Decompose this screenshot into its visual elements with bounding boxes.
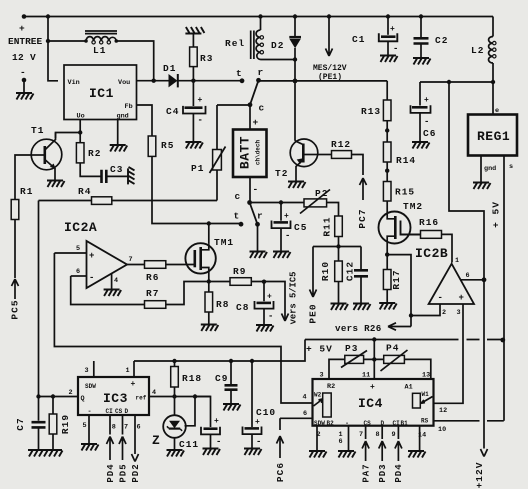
svg-text:R13: R13 [361, 106, 381, 117]
svg-text:4: 4 [152, 389, 156, 397]
arrow PC5 [12, 279, 19, 299]
svg-text:C12: C12 [345, 261, 356, 281]
svg-text:W2: W2 [314, 392, 322, 399]
svg-text:6: 6 [137, 424, 141, 432]
svg-text:C4: C4 [166, 106, 179, 117]
svg-text:+: + [370, 383, 375, 392]
svg-text:B1: B1 [401, 420, 409, 427]
resistor R4 [39, 200, 92, 202]
potentiometer P2 [304, 199, 327, 207]
svg-text:2: 2 [317, 431, 321, 439]
resistor R13 [386, 81, 388, 100]
svg-text:CI: CI [106, 408, 114, 415]
svg-text:PC7: PC7 [357, 208, 368, 228]
svg-text:11: 11 [362, 372, 370, 380]
svg-text:12: 12 [439, 407, 447, 415]
svg-text:C5: C5 [294, 222, 307, 233]
ground zener [167, 450, 185, 457]
svg-text:PC6: PC6 [275, 462, 286, 482]
svg-text:C6: C6 [423, 128, 436, 139]
wire IC2A feedback [71, 276, 145, 305]
capacitor C7 [38, 397, 40, 421]
wire +5V line [305, 339, 503, 341]
svg-text:+: + [459, 293, 464, 303]
wire IC3 pin1 stub [133, 361, 135, 377]
svg-text:BATT: BATT [237, 136, 252, 169]
svg-text:-: - [88, 408, 92, 416]
svg-text:R8: R8 [216, 299, 229, 310]
node TM2 source junction [385, 252, 389, 256]
potentiometer W2 internal [323, 393, 332, 417]
svg-text:t: t [236, 68, 243, 79]
wire junction line to C12 [313, 246, 361, 248]
svg-text:-: - [285, 231, 290, 241]
capacitor C8 [263, 282, 265, 302]
svg-text:9: 9 [392, 431, 396, 439]
wire IC3 supply bus [134, 340, 305, 362]
wire IC2A minus input [71, 275, 87, 277]
resistor R9 [209, 281, 230, 283]
svg-text:D1: D1 [163, 63, 176, 74]
svg-text:R6: R6 [146, 272, 159, 283]
resistor R7 [145, 301, 166, 309]
node c contact top [248, 102, 253, 107]
resistor R8 [205, 292, 213, 312]
capacitor C10 [250, 359, 254, 363]
ground C9 [223, 404, 241, 411]
inductor L2 [492, 17, 494, 37]
svg-text:D2: D2 [271, 40, 284, 51]
transistor T1 [31, 139, 62, 170]
capacitor C6 [419, 82, 421, 106]
node c contact bottom [247, 200, 252, 205]
svg-text:vers 5/IC5: vers 5/IC5 [288, 272, 298, 325]
ground r bottom [250, 252, 268, 259]
IC1 box [64, 65, 137, 120]
transistor T2 [290, 139, 318, 167]
svg-text:PD2: PD2 [131, 463, 141, 482]
wire Vout line [137, 80, 169, 82]
wire r line to R13 [259, 80, 388, 82]
svg-text:+: + [424, 96, 429, 105]
wire r bottom to ground [257, 224, 259, 251]
svg-text:-: - [253, 184, 260, 195]
svg-text:+: + [19, 23, 26, 34]
ground REG1 [473, 183, 491, 190]
svg-text:10: 10 [438, 426, 446, 434]
wire pin11 riser [373, 340, 375, 380]
svg-text:TM2: TM2 [403, 201, 423, 212]
capacitor C11 [195, 397, 211, 428]
resistor R1 [11, 200, 19, 220]
svg-text:14: 14 [418, 432, 426, 440]
svg-text:gnd: gnd [117, 113, 129, 121]
svg-text:6: 6 [76, 268, 80, 276]
ground R10 [331, 304, 349, 311]
svg-text:-: - [89, 273, 94, 283]
svg-text:T1: T1 [31, 125, 44, 136]
svg-text:L1: L1 [93, 45, 106, 56]
ground C6 [412, 142, 430, 149]
wire IC3 ref line [149, 396, 211, 398]
ground C5 [273, 252, 291, 259]
svg-text:C1: C1 [352, 34, 365, 45]
svg-text:R2: R2 [88, 148, 101, 159]
svg-text:Q: Q [81, 395, 85, 403]
svg-text:c: c [259, 103, 266, 114]
svg-text:SDW: SDW [314, 420, 325, 427]
svg-text:e: e [495, 107, 499, 115]
svg-text:PE0: PE0 [308, 303, 319, 323]
ground C8 [256, 325, 274, 332]
wire coil bottom to D2 line [261, 59, 296, 61]
potentiometer P1 [217, 105, 250, 201]
svg-text:7: 7 [359, 431, 363, 439]
arrow PD3 pin8 [379, 426, 386, 461]
svg-text:C8: C8 [236, 302, 249, 313]
svg-text:A1: A1 [405, 384, 413, 392]
svg-text:L2: L2 [471, 45, 484, 56]
node t contact bottom [239, 222, 244, 227]
ground C4 [185, 142, 203, 149]
wire IC3 pin5 ground [88, 415, 90, 444]
svg-text:R11: R11 [322, 216, 333, 236]
svg-text:RS: RS [421, 418, 429, 425]
svg-text:REG1: REG1 [477, 129, 510, 144]
arrow PC6 [277, 418, 284, 458]
svg-text:ch\dech: ch\dech [255, 140, 262, 166]
resistor R5 [148, 136, 156, 156]
svg-text:-: - [268, 312, 273, 322]
svg-text:-: - [424, 117, 429, 127]
chassis C3 [128, 167, 135, 185]
svg-text:-: - [20, 67, 27, 78]
svg-text:+: + [214, 417, 219, 426]
svg-text:6: 6 [303, 410, 307, 418]
svg-text:Rel: Rel [225, 38, 245, 49]
wire R5 down to t line [152, 156, 241, 223]
resistor R14 [383, 142, 391, 162]
svg-text:+: + [390, 25, 395, 34]
svg-text:7: 7 [124, 424, 128, 432]
svg-text:3: 3 [85, 367, 89, 375]
node TM1 drain tap [207, 221, 211, 225]
svg-text:(PE1): (PE1) [318, 73, 342, 82]
wire IC3 pin3 stub [93, 361, 95, 377]
svg-text:C7: C7 [15, 417, 26, 430]
inductor L1 [48, 40, 86, 42]
resistor R12 [318, 154, 332, 156]
svg-text:C9: C9 [215, 373, 228, 384]
svg-text:P2: P2 [315, 188, 328, 199]
svg-text:R2: R2 [327, 383, 335, 391]
svg-text:IC1: IC1 [89, 86, 114, 101]
svg-text:R9: R9 [233, 266, 246, 277]
svg-text:+: + [255, 418, 260, 427]
ground C7 R19 wide [28, 450, 63, 457]
battery BATT [249, 105, 251, 130]
IC3 box [78, 377, 149, 415]
svg-text:vers R26: vers R26 [335, 323, 382, 334]
svg-text:C11: C11 [179, 439, 199, 450]
svg-text:R4: R4 [78, 186, 91, 197]
resistor R6 [145, 261, 166, 269]
capacitor C3 [80, 163, 101, 177]
wire 12V filtered line [420, 81, 493, 83]
arrow PD5 pin7 [119, 415, 126, 460]
svg-text:R1: R1 [20, 186, 33, 197]
svg-text:7: 7 [129, 256, 133, 264]
wire bus drop to Vin [46, 14, 50, 18]
svg-text:R7: R7 [146, 288, 159, 299]
ground C10 [244, 449, 262, 456]
svg-text:IC3: IC3 [103, 391, 128, 406]
svg-text:IC2A: IC2A [64, 220, 97, 235]
svg-text:IC4: IC4 [358, 396, 383, 411]
svg-text:+ 5V: + 5V [491, 201, 502, 228]
node r contact bottom [255, 222, 260, 227]
ground R17 [379, 303, 397, 310]
svg-text:12 V: 12 V [12, 52, 36, 63]
svg-text:2: 2 [442, 309, 446, 317]
wire R16 to IC2B pin1 [442, 234, 453, 262]
wire R11 to junction [338, 237, 340, 247]
diode D1 [169, 74, 178, 87]
resistor R11 [335, 216, 343, 237]
svg-text:P4: P4 [386, 343, 399, 354]
node + input terminal [22, 14, 27, 19]
svg-text:C2: C2 [435, 35, 448, 46]
svg-text:c: c [235, 191, 242, 202]
wire R4 node down to IC3 pin2 [38, 201, 40, 397]
node r contact top [256, 78, 261, 83]
wire P3 to pin11 riser [364, 358, 384, 360]
svg-text:B2: B2 [327, 420, 335, 427]
svg-text:r: r [257, 211, 264, 222]
svg-text:R12: R12 [331, 139, 351, 150]
wire IC4 pin10 5V [434, 420, 504, 422]
svg-text:3: 3 [320, 372, 324, 380]
wire line A : IC2A+ to IC4 pin4 [54, 253, 312, 403]
resistor R3 [192, 34, 194, 81]
node IC2B out to 12V [482, 277, 487, 282]
wire REG1 s output 5V rail [503, 156, 505, 421]
arrow PD4 pin9 [395, 426, 402, 461]
wire TM2 source to IC2B pin2 and vers R26 [387, 255, 440, 327]
capacitor C4 [192, 81, 194, 106]
arrow +12V [481, 449, 488, 457]
svg-text:PA7: PA7 [361, 463, 371, 482]
resistor R10 [338, 247, 340, 262]
svg-text:+12V: +12V [474, 462, 485, 489]
potentiometer P3 [345, 355, 364, 363]
svg-text:-: - [256, 437, 261, 447]
svg-text:Fb: Fb [125, 103, 133, 111]
wire T1 base to R1 [15, 155, 31, 200]
svg-text:+ 5V: + 5V [306, 344, 333, 355]
svg-text:Vin: Vin [68, 79, 80, 87]
svg-text:t: t [234, 211, 241, 222]
svg-text:6: 6 [466, 272, 470, 280]
svg-text:+: + [284, 212, 289, 221]
node r-line crossing D2 line [293, 79, 298, 84]
svg-text:s: s [509, 163, 513, 171]
arrow PA7 pin7 [362, 426, 369, 461]
diode D2 [293, 14, 297, 18]
wire R1 to PC5 [14, 220, 16, 279]
svg-text:2: 2 [69, 389, 73, 397]
svg-text:CS: CS [364, 420, 372, 427]
wire IC1 gnd pin [117, 120, 119, 145]
svg-text:R5: R5 [161, 140, 174, 151]
ground IC1 [110, 145, 128, 152]
arrow PD2 pin6 [132, 415, 139, 462]
chassis above R3 [185, 27, 204, 34]
arrow PC7 [360, 178, 367, 200]
svg-text:T2: T2 [275, 168, 288, 179]
ground C12 [353, 304, 371, 311]
wire IC2B pin3 to IC4 wiper [434, 304, 464, 403]
capacitor C1 [386, 14, 390, 18]
wire top 12V bus [24, 16, 493, 18]
svg-text:C10: C10 [256, 407, 276, 418]
svg-text:R15: R15 [395, 187, 415, 198]
svg-text:TM1: TM1 [214, 237, 234, 248]
node L1 tap [46, 39, 50, 43]
potentiometer W1 internal [413, 393, 421, 408]
wire IC2A plus input [54, 252, 86, 254]
svg-text:PD5: PD5 [118, 463, 128, 482]
wire minus stub [23, 80, 25, 92]
svg-text:1: 1 [455, 257, 459, 265]
svg-text:-: - [216, 437, 221, 447]
svg-text:6: 6 [339, 438, 343, 446]
wire D1 to t contact [179, 80, 243, 82]
svg-text:4: 4 [303, 394, 307, 402]
svg-text:8: 8 [112, 424, 116, 432]
wire IC4 pin6 to PC6 [280, 417, 313, 419]
ground C11 [203, 449, 221, 456]
resistor R16 [421, 231, 442, 239]
wire IC4 pin1 6 ground [348, 426, 350, 451]
wire blade bottom switch [250, 203, 258, 225]
potentiometer P4 [384, 355, 405, 363]
svg-text:R14: R14 [396, 155, 416, 166]
resistor R17 [386, 255, 388, 270]
svg-text:+: + [198, 96, 203, 105]
resistor R2 [79, 133, 81, 143]
svg-text:gnd: gnd [484, 165, 496, 173]
arrow PD4 pin8 [107, 415, 114, 460]
wire P2 to R11 [327, 203, 339, 217]
IC4 box [313, 379, 434, 426]
svg-text:PC5: PC5 [10, 299, 21, 319]
wire R9 to C8 and vers 5/IC5 [251, 282, 285, 321]
capacitor C5 [280, 203, 282, 221]
arrow MES/12V [327, 14, 331, 18]
svg-text:ENTREE: ENTREE [8, 36, 43, 47]
svg-text:R16: R16 [419, 217, 439, 228]
svg-text:IC2B: IC2B [415, 246, 448, 261]
zener diode Z [174, 397, 176, 416]
wire IC2A output [127, 264, 145, 266]
wire IC2A pin4 ground [111, 274, 113, 290]
svg-text:P3: P3 [345, 343, 358, 354]
svg-text:-: - [438, 293, 443, 303]
node t contact top [240, 78, 245, 83]
wire REG1 gnd [480, 156, 482, 183]
relay Rel coil [258, 14, 262, 18]
wire c bottom line [250, 202, 304, 204]
svg-text:-: - [198, 116, 203, 126]
svg-text:5: 5 [76, 245, 80, 253]
svg-text:13: 13 [422, 372, 430, 380]
regulator REG1 box [468, 115, 517, 156]
svg-text:PD4: PD4 [106, 463, 116, 482]
svg-text:-: - [393, 44, 398, 54]
ground C1 [380, 56, 398, 63]
svg-text:Vou: Vou [118, 79, 130, 87]
svg-text:+: + [89, 251, 94, 261]
svg-text:4: 4 [114, 277, 118, 285]
wire IC4 pin2 ground [316, 426, 318, 451]
svg-text:+: + [131, 380, 136, 389]
wire R7 to TM1 source [166, 282, 209, 305]
svg-text:Uo: Uo [77, 113, 85, 121]
svg-text:P1: P1 [191, 163, 204, 174]
wire R6 to TM1 gate [166, 264, 195, 266]
svg-text:W1: W1 [422, 391, 430, 398]
svg-text:r: r [258, 67, 265, 78]
svg-text:PD3: PD3 [378, 463, 388, 482]
wire IC4 pin3 to P3 [329, 359, 345, 379]
mosfet TM1 [208, 224, 210, 244]
svg-text:1: 1 [126, 367, 130, 375]
ground T2 [288, 182, 306, 189]
resistor R19 [52, 397, 54, 415]
svg-text:3: 3 [457, 309, 461, 317]
svg-text:R18: R18 [182, 373, 202, 384]
arrow vers R26 [388, 323, 411, 330]
svg-text:D: D [125, 408, 129, 415]
svg-text:5: 5 [83, 422, 87, 430]
svg-text:CS: CS [115, 408, 123, 415]
svg-text:C3: C3 [110, 164, 123, 175]
svg-text:ref: ref [136, 395, 147, 402]
svg-text:Z: Z [152, 433, 160, 448]
ground entree [16, 93, 34, 100]
wire IC2B output [461, 279, 484, 281]
mosfet TM2 [386, 201, 388, 217]
wire IC3 pin2 input [39, 396, 79, 398]
wire IC1 Uo [79, 120, 81, 133]
svg-text:SDW: SDW [85, 383, 96, 390]
capacitor C12 [360, 247, 362, 270]
arrow PE0 [310, 247, 317, 298]
ground C2 [413, 58, 431, 65]
capacitor C2 [419, 14, 423, 18]
wire L1 to Vout node [116, 41, 153, 81]
ground T1 [47, 181, 65, 188]
svg-text:R17: R17 [391, 269, 402, 289]
wire P4 to pin13 [404, 359, 430, 379]
wire switch blade top [250, 80, 259, 105]
arrow vers 5/IC5 [282, 314, 289, 322]
node TM1 source junction [207, 279, 211, 283]
wire IC4 pin14 ground [419, 426, 421, 451]
svg-text:+: + [253, 117, 260, 128]
svg-text:MES/12V: MES/12V [313, 64, 347, 73]
